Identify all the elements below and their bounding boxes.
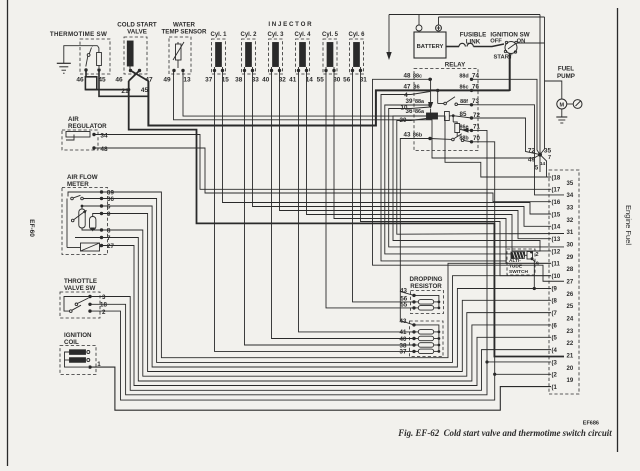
wire 43 relay to dropping resistors <box>400 139 430 296</box>
relay coil K1 <box>427 113 438 119</box>
svg-text:RESISTOR: RESISTOR <box>410 283 442 290</box>
altitude switch contact <box>525 254 528 256</box>
terminal 14 injector <box>305 69 308 72</box>
svg-text:ON: ON <box>517 38 526 44</box>
svg-text:Cyl. 6: Cyl. 6 <box>348 32 365 38</box>
terminal 49 wts <box>172 69 175 72</box>
svg-text:55: 55 <box>317 77 325 84</box>
relay internal vertical wire <box>456 133 458 137</box>
svg-text:88d: 88d <box>459 74 468 80</box>
relay internal wire to terminal 85 <box>449 115 453 117</box>
svg-text:19: 19 <box>567 378 574 384</box>
injector Cyl. 5 solenoid bar <box>327 43 333 67</box>
wire injector right x360.5 to pin 10 <box>361 71 552 276</box>
svg-text:(10: (10 <box>552 274 561 280</box>
wire injector right x252.5 to pin 14 <box>253 71 552 227</box>
svg-text:(15: (15 <box>552 212 561 218</box>
wire afm terminal y245.5 to pin 5 <box>102 246 552 386</box>
svg-text:6: 6 <box>107 204 111 211</box>
svg-text:24: 24 <box>567 317 574 323</box>
wire throttle 3 to pin 4 <box>90 297 551 391</box>
svg-text:26: 26 <box>567 292 574 298</box>
svg-text:49: 49 <box>163 77 171 84</box>
svg-text:35: 35 <box>567 181 574 187</box>
svg-text:34: 34 <box>100 133 108 140</box>
wire 73 to pin 34 <box>472 105 565 195</box>
battery feed wire upper <box>389 14 540 16</box>
ignition coil secondary bar <box>70 358 86 363</box>
svg-text:SWITCH: SWITCH <box>509 269 528 275</box>
svg-text:46: 46 <box>115 77 123 84</box>
relay RY1 box <box>414 69 478 151</box>
wire throttle 18 to pin 3 <box>90 304 487 395</box>
thermotime switch TT1 box <box>80 39 110 74</box>
svg-text:43: 43 <box>404 131 411 138</box>
wire altitude 9 junction <box>532 259 534 289</box>
altitude switch coil <box>511 252 525 259</box>
svg-text:74: 74 <box>472 73 479 80</box>
battery feed wire lower <box>439 16 545 18</box>
dropping resistor lower box <box>410 321 444 357</box>
thermotime bimetal resistor <box>97 53 102 66</box>
dr resistor pill R41 <box>418 330 433 335</box>
wire ignition on <box>517 42 545 44</box>
terminal 41 injector <box>297 69 300 72</box>
throttle terminals <box>88 295 91 298</box>
svg-text:48: 48 <box>404 73 411 80</box>
svg-text:7: 7 <box>548 155 551 161</box>
dr lower common wire <box>414 325 439 352</box>
battery negative terminal <box>416 25 422 31</box>
svg-text:Cyl. 2: Cyl. 2 <box>240 32 257 38</box>
terminal 31 injector <box>359 69 362 72</box>
svg-text:46: 46 <box>76 77 84 84</box>
svg-text:IGNITION: IGNITION <box>64 332 92 339</box>
relay left terminal dots <box>428 78 431 81</box>
left page rule <box>7 0 9 466</box>
afm potentiometer feed <box>82 206 102 209</box>
svg-text:(11: (11 <box>552 262 561 268</box>
injector Cyl. 1 box <box>212 39 226 74</box>
wire battery feed down to junction <box>539 15 541 155</box>
wire 48 air regulator <box>94 148 551 202</box>
svg-text:2: 2 <box>102 309 106 316</box>
svg-text:(9: (9 <box>552 286 558 292</box>
terminal 46 thermotime <box>84 68 87 71</box>
ignition coil box <box>60 346 96 375</box>
battery positive terminal <box>436 25 442 31</box>
fuel pump ground symbol <box>556 116 567 118</box>
svg-text:35: 35 <box>544 148 552 155</box>
svg-text:36: 36 <box>107 196 114 203</box>
svg-text:14: 14 <box>540 161 546 167</box>
relay right terminal dots <box>470 78 473 81</box>
wire 10 relay diagonal <box>389 107 564 247</box>
svg-text:(2: (2 <box>552 373 558 379</box>
ignition switch contacts <box>505 41 507 43</box>
svg-text:(12: (12 <box>552 249 561 255</box>
svg-text:FUEL: FUEL <box>558 66 574 73</box>
wire ignition on feed down to junction <box>540 17 545 155</box>
svg-text:28: 28 <box>567 267 574 273</box>
ignition switch SW1 body <box>505 42 517 54</box>
terminal 13 wts <box>181 69 184 72</box>
svg-text:EF-60: EF-60 <box>28 219 35 237</box>
relay switch contact lower <box>452 138 455 141</box>
wire injector left x244.5 to dropping resistor <box>245 71 415 346</box>
svg-text:FUSIBLE: FUSIBLE <box>460 32 486 39</box>
ignition coil primary bar <box>70 350 86 355</box>
svg-text:TEMP SENSOR: TEMP SENSOR <box>162 29 207 36</box>
svg-text:7: 7 <box>107 235 111 242</box>
svg-text:56: 56 <box>343 77 351 84</box>
svg-text:DROPPING: DROPPING <box>409 276 442 283</box>
thermotime switch contact <box>91 46 93 47</box>
svg-text:25: 25 <box>567 304 574 310</box>
wire injector right x306.5 to pin 12 <box>307 71 552 251</box>
afm second resistor <box>90 217 96 230</box>
svg-text:22: 22 <box>567 341 574 347</box>
svg-text:Cyl. 5: Cyl. 5 <box>322 32 339 38</box>
svg-text:21: 21 <box>567 354 574 360</box>
svg-text:REGULATOR: REGULATOR <box>68 123 107 130</box>
afm resistor bottoms to terminal 8 <box>82 228 102 230</box>
svg-text:(18: (18 <box>552 175 561 181</box>
dr lower terminals <box>412 323 415 326</box>
injector Cyl. 5 box <box>323 39 337 74</box>
svg-text:47: 47 <box>404 83 411 90</box>
throttle switch contacts <box>64 297 90 312</box>
svg-text:COLD START: COLD START <box>117 22 157 29</box>
relay diode arrow to 71 <box>460 129 472 132</box>
afm terminals <box>100 190 103 193</box>
svg-text:(3: (3 <box>552 360 558 366</box>
svg-text:(1: (1 <box>552 385 558 391</box>
svg-text:31: 31 <box>567 230 574 236</box>
terminal 47 cold start valve <box>138 69 141 72</box>
wire fusible link to ignition switch <box>473 44 504 47</box>
svg-text:27: 27 <box>107 243 114 250</box>
fuel pump motor M1 <box>557 99 567 109</box>
afm compensation resistor <box>81 243 100 251</box>
svg-text:71: 71 <box>473 124 480 131</box>
svg-text:Fig. EF-62 Cold start valve a: Fig. EF-62 Cold start valve and thermoti… <box>397 428 612 438</box>
injector Cyl. 6 box <box>350 39 364 74</box>
svg-text:40: 40 <box>262 77 270 84</box>
terminal 40 injector <box>270 69 273 72</box>
terminal 38 injector <box>243 69 246 72</box>
air regulator box <box>62 130 98 150</box>
afm left rail <box>66 199 68 248</box>
wire injector left x298.5 to dropping resistor <box>299 71 415 332</box>
wire thermotime loop <box>85 77 96 90</box>
relay internal wire coil to resistor <box>438 115 445 117</box>
svg-text:88f: 88f <box>460 99 468 105</box>
altitude switch terminal 9 <box>531 257 534 260</box>
svg-text:3: 3 <box>102 294 106 301</box>
dr upper terminals <box>412 294 415 297</box>
wire 72 to junction <box>472 118 541 155</box>
svg-text:THROTTLE: THROTTLE <box>64 278 97 285</box>
svg-text:OFF: OFF <box>490 38 502 44</box>
dr resistor pill R56 <box>418 300 433 305</box>
fusible link FL1 symbol <box>459 43 465 46</box>
ignition coil internal wire <box>65 352 89 367</box>
svg-text:86a: 86a <box>415 109 425 115</box>
afm potentiometer track <box>79 209 85 228</box>
wire cold start valve cross left <box>131 71 149 82</box>
relay internal diode branch <box>430 79 432 102</box>
svg-text:BATTERY: BATTERY <box>417 44 444 50</box>
wire injector left x326.0 to dropping resistor <box>326 71 414 308</box>
terminal 15 injector <box>221 69 224 72</box>
wire afm terminal y198.5 to pin 10 <box>102 199 552 363</box>
wire injector right x334.0 to pin 11 <box>334 71 551 264</box>
injector Cyl. 2 solenoid bar <box>246 43 252 67</box>
relay resistor R2 <box>452 116 454 122</box>
wire injector left x271.5 to dropping resistor <box>272 71 415 339</box>
wire 49 water temp sensor <box>174 71 541 159</box>
wire 43 branch to lower dr <box>400 292 414 325</box>
svg-text:Cyl. 4: Cyl. 4 <box>294 32 311 38</box>
fuel pump feed wire <box>545 81 562 99</box>
svg-text:76: 76 <box>472 83 479 90</box>
water temp sensor thermistor <box>176 44 182 60</box>
svg-text:Cyl. 1: Cyl. 1 <box>210 32 227 38</box>
svg-text:(4: (4 <box>552 348 558 354</box>
altitude switch box <box>507 249 535 275</box>
wire 74 to junction <box>472 79 541 154</box>
svg-text:EF686: EF686 <box>583 421 599 427</box>
injector Cyl. 3 solenoid bar <box>273 43 279 67</box>
terminal 55 injector <box>324 69 327 72</box>
svg-text:(8: (8 <box>552 299 558 305</box>
wire injector right x279.5 to pin 13 <box>280 71 552 239</box>
terminal 34 air regulator <box>92 133 95 136</box>
terminal 1 ignition coil <box>88 365 91 368</box>
ground symbol <box>57 62 71 64</box>
wire 39 relay to run <box>385 105 512 254</box>
wire afm terminal y206.0 to pin 9 <box>102 206 552 367</box>
svg-text:Cyl. 3: Cyl. 3 <box>267 32 284 38</box>
wire 71 down to pin 3 <box>472 130 552 362</box>
svg-text:(14: (14 <box>552 225 561 231</box>
svg-text:37: 37 <box>205 77 213 84</box>
svg-text:48: 48 <box>100 146 108 153</box>
svg-text:(17: (17 <box>552 188 561 194</box>
svg-text:(7: (7 <box>552 311 558 317</box>
air regulator heater resistor <box>66 132 90 138</box>
svg-text:41: 41 <box>289 77 297 84</box>
svg-text:88a: 88a <box>415 99 425 105</box>
cold start valve lead <box>129 66 131 69</box>
wire injector right x222.5 to pin 15 <box>223 71 552 214</box>
junction node J1 <box>538 153 542 157</box>
afm pump contact switch <box>68 192 102 197</box>
injector Cyl. 6 solenoid bar <box>354 43 360 67</box>
wire afm terminal y230.0 to pin 7 <box>102 230 552 376</box>
wire 13 water temp sensor <box>183 71 551 178</box>
afm second resistor feed <box>93 214 102 217</box>
svg-text:86b: 86b <box>413 132 423 138</box>
svg-text:WATER: WATER <box>173 22 195 29</box>
cold start valve solenoid bar <box>127 41 133 66</box>
wire 21 from thermotime to junction <box>85 89 128 91</box>
svg-text:27: 27 <box>567 280 574 286</box>
dr resistor pill R38 <box>418 343 433 348</box>
terminal 45 thermotime <box>97 68 100 71</box>
wire 34 air regulator <box>94 135 551 190</box>
terminal 46 cold start valve <box>129 69 132 72</box>
ground wire thermotime <box>64 46 98 64</box>
svg-text:88c: 88c <box>413 74 422 80</box>
svg-text:RELAY: RELAY <box>445 62 466 69</box>
svg-text:PUMP: PUMP <box>557 73 575 80</box>
svg-text:AIR FLOW: AIR FLOW <box>67 174 98 181</box>
cold start valve V1 box <box>124 37 147 74</box>
relay switch contact upper <box>437 90 439 103</box>
dr upper common wire <box>414 295 439 308</box>
injector Cyl. 1 solenoid bar <box>216 43 222 67</box>
wire battery to fusible link <box>446 46 459 48</box>
terminal 37 injector <box>213 69 216 72</box>
injector Cyl. 2 leads <box>244 67 246 69</box>
svg-text:45: 45 <box>141 87 149 94</box>
svg-text:34: 34 <box>567 193 574 199</box>
svg-text:73: 73 <box>472 98 479 105</box>
injector Cyl. 4 box <box>296 39 310 74</box>
power feed arrow <box>388 15 390 53</box>
svg-text:9: 9 <box>536 262 539 268</box>
svg-text:(16: (16 <box>552 200 561 206</box>
right page rule <box>617 8 619 452</box>
svg-text:36: 36 <box>406 108 413 115</box>
svg-text:70: 70 <box>473 135 480 142</box>
afm terminal 7 wire <box>75 237 102 239</box>
svg-text:29: 29 <box>567 255 574 261</box>
terminal 30 injector <box>332 69 335 72</box>
wire injector left x214.5 to dropping resistor <box>215 71 415 352</box>
svg-text:M: M <box>560 103 565 109</box>
wire afm terminal y213.5 to pin 8 <box>102 214 552 372</box>
wire afm terminal y237.5 to pin 6 <box>102 238 552 382</box>
wire 45 to relay 86 <box>148 81 509 126</box>
injector Cyl. 3 box <box>269 39 283 74</box>
wire cold start valve cross right <box>129 71 140 82</box>
svg-text:COIL: COIL <box>64 339 79 346</box>
wire junction to pin 18 <box>540 155 551 177</box>
svg-text:(13: (13 <box>552 237 561 243</box>
svg-text:(6: (6 <box>552 323 558 329</box>
battery BT1 box <box>414 32 446 58</box>
svg-text:8: 8 <box>107 228 111 235</box>
terminal 48 air regulator <box>92 146 95 149</box>
svg-text:TUDE: TUDE <box>509 264 523 270</box>
ecu connector box <box>549 170 579 394</box>
svg-text:9: 9 <box>107 211 111 218</box>
wire 21 thick run to pin 4 <box>129 81 564 357</box>
svg-text:I N J E C T O R: I N J E C T O R <box>268 21 312 28</box>
wire throttle 2 to pin 2 <box>90 311 495 400</box>
dr resistor pill R40 <box>418 336 433 341</box>
air flow meter box <box>62 188 108 255</box>
svg-text:(5: (5 <box>552 336 558 342</box>
svg-text:2: 2 <box>536 252 539 258</box>
svg-text:23: 23 <box>567 329 574 335</box>
wire afm terminal y192.0 to pin 11 <box>102 192 552 358</box>
wire ignition start to relay <box>509 53 511 91</box>
svg-text:38: 38 <box>235 77 243 84</box>
throttle valve switch box <box>60 292 100 318</box>
relay resistor R1 <box>445 112 450 121</box>
dropping resistor upper box <box>411 291 444 314</box>
svg-text:METER: METER <box>67 181 89 188</box>
dr resistor pill R55 <box>418 306 433 311</box>
terminal 32 injector <box>278 69 281 72</box>
wire 4 relay diagonal <box>381 92 507 261</box>
wire 70 down to pin 2 <box>472 142 552 374</box>
svg-text:AIR: AIR <box>68 116 79 123</box>
svg-text:37: 37 <box>400 349 407 356</box>
wire ignition coil 1 to pin 1 <box>90 367 551 410</box>
injector Cyl. 2 box <box>242 39 256 74</box>
fuel pump gauge <box>573 100 582 109</box>
svg-text:VALVE: VALVE <box>127 29 147 36</box>
svg-text:THERMOTIME SW: THERMOTIME SW <box>50 31 107 38</box>
terminal 56 injector <box>351 69 354 72</box>
svg-text:13: 13 <box>183 77 191 84</box>
dr resistor pill R37 <box>418 349 433 354</box>
svg-text:32: 32 <box>567 218 574 224</box>
injector Cyl. 4 solenoid bar <box>300 43 306 67</box>
water temp sensor S1 box <box>169 37 191 74</box>
svg-text:20: 20 <box>567 366 574 372</box>
svg-text:30: 30 <box>567 243 574 249</box>
terminal 33 injector <box>251 69 254 72</box>
fuel pump ground wire <box>561 109 563 117</box>
wire injector left x352.5 to dropping resistor <box>353 71 415 302</box>
injector Cyl. 3 leads <box>271 67 273 69</box>
injector Cyl. 5 leads <box>325 67 327 69</box>
wire 20 relay diagonal <box>397 118 564 234</box>
svg-text:VALVE SW: VALVE SW <box>64 285 96 292</box>
injector Cyl. 1 leads <box>214 67 216 69</box>
svg-text:33: 33 <box>567 206 574 212</box>
injector Cyl. 4 leads <box>298 67 300 69</box>
wire 36 relay to run <box>393 116 540 251</box>
svg-text:18: 18 <box>100 302 107 309</box>
svg-text:Engine Fuel: Engine Fuel <box>624 205 633 245</box>
wire 48 relay to run 265 <box>373 79 565 281</box>
wire junction stub 5 <box>539 155 541 172</box>
afm potentiometer wiper arrow <box>71 219 74 222</box>
injector Cyl. 6 leads <box>352 67 354 69</box>
